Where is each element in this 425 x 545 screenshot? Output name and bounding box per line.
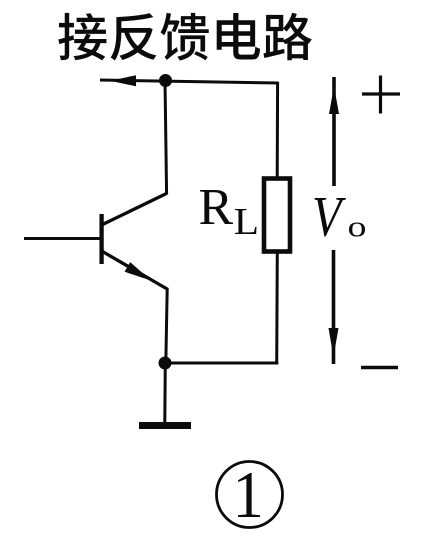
- transistor Q1 base bar: [99, 214, 103, 264]
- transistor Q1: [102, 194, 168, 365]
- label o subscript of Vo: [349, 223, 365, 237]
- label char 路: [263, 13, 311, 60]
- label char 电: [217, 13, 260, 60]
- transistor Q1 collector diagonal: [103, 194, 167, 225]
- ground symbol: [139, 422, 191, 429]
- wire top horizontal (collector node to feedback): [100, 80, 279, 83]
- resistor RL body: [264, 179, 290, 252]
- Vo plus polarity arrow (up): [332, 77, 336, 186]
- label R of RL: [200, 190, 233, 224]
- node A junction dot top: [159, 74, 172, 87]
- label char 馈: [161, 13, 209, 61]
- label char 反: [111, 13, 157, 60]
- transistor Q1 emitter arrowhead: [125, 262, 151, 280]
- label L subscript of RL: [235, 209, 256, 234]
- label char 接: [58, 13, 106, 61]
- circled figure number 1: [217, 462, 283, 528]
- wire collector vertical: [165, 81, 167, 195]
- wire emitter vertical: [166, 288, 167, 364]
- wire resistor RL bottom to bottom node: [275, 251, 279, 365]
- minus sign: [361, 366, 398, 369]
- wire right vertical (top node to resistor RL top): [276, 82, 279, 179]
- Vo minus polarity arrow (down): [332, 250, 336, 364]
- wire ground stem: [163, 363, 167, 422]
- arrowhead to feedback (left): [110, 75, 136, 86]
- transistor Q1 emitter diagonal: [103, 252, 169, 290]
- wire bottom horizontal (emitter node to resistor): [164, 362, 279, 365]
- label Vo: [315, 198, 347, 236]
- plus sign: [362, 76, 400, 114]
- node B junction dot bottom: [159, 357, 172, 370]
- wire base lead: [24, 237, 102, 240]
